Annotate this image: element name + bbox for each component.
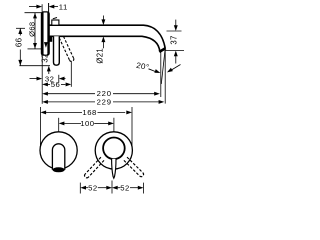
escutcheon side view [41,12,49,55]
arrow 56 right [66,82,72,86]
handle end cap [53,167,65,172]
arrow Ø21 top [101,19,105,25]
svg-text:32: 32 [40,53,49,63]
20 degree left leader [149,69,157,72]
arrow Ø21 bottom [101,36,105,42]
arrow 32v bottom [47,66,51,72]
arrow 11 right [49,5,55,9]
svg-text:168: 168 [82,108,96,117]
dimension Ø21 [102,16,104,49]
arrow 100 left [59,121,65,125]
arrow 220 right [154,92,160,96]
svg-text:52: 52 [120,184,130,193]
svg-text:52: 52 [88,184,98,193]
20 degree reference lines [161,49,165,104]
lever ring front view [103,138,125,160]
dimension 37 [166,20,185,64]
dashed lever left position [85,157,104,178]
arrow 229 left [42,100,48,104]
spout outlet face [159,48,165,52]
nut on pipe [52,20,59,25]
arrow 11 left [36,5,42,9]
arrow Ø68 bottom [33,43,37,49]
svg-text:100: 100 [80,119,94,128]
spout bottom edge [47,36,160,51]
escutcheon front edge [41,12,43,54]
escutcheon front view right [95,132,132,169]
dashed lever right position [124,157,144,177]
svg-text:37: 37 [170,35,179,44]
handle front view [52,144,64,170]
arrow 66 top [18,28,22,34]
svg-text:11: 11 [59,2,68,11]
arrow 52 far left [80,186,86,190]
svg-text:66: 66 [14,37,23,47]
arrow 66 bottom [18,60,22,66]
arrow 100 right [108,121,114,125]
svg-text:Ø68: Ø68 [27,22,36,37]
lever tail front view [112,159,116,178]
handle side view [54,36,60,65]
arrow 52 far right [138,186,144,190]
arrow 32h left [37,77,43,81]
svg-text:229: 229 [97,97,112,106]
dimension 100 row [59,118,114,132]
escutcheon front view left [40,132,77,169]
wall line [48,3,50,12]
arrow 168 right [126,110,132,114]
dimension 56 row [48,62,72,87]
arrow 37 top [174,25,178,31]
dimension 11 [29,4,58,12]
arrow 32v top [44,42,48,48]
spout top edge [47,25,165,48]
dimension 32 horizontal row [30,55,66,103]
escutcheon back edge [47,12,49,54]
arrow 56 left [42,82,48,86]
arrow 52 mid left [106,186,112,190]
arrow 32h right [59,77,65,81]
arrow 37 bottom [174,51,178,57]
handle hub [48,37,52,42]
arrow 52 mid right [112,186,118,190]
dimension Ø68 [25,13,44,49]
dimension 32 vertical [48,71,50,74]
nut top tick [53,18,57,19]
svg-text:56: 56 [51,80,61,89]
dimension 168 row [40,107,132,150]
svg-text:Ø21: Ø21 [96,48,105,64]
spout pipe body [47,25,165,51]
arrow Ø68 top [33,13,37,19]
20 degree right leader [171,65,181,71]
dimension 66 [16,28,50,65]
dimension 229 row [48,101,159,103]
dashed handle open position [59,36,74,61]
arrow 168 left [40,110,46,114]
arrow 220 left [42,92,48,96]
dimension 220 row [48,93,155,95]
dimension 52 52 row [80,181,143,194]
arrow 229 right [159,100,165,104]
